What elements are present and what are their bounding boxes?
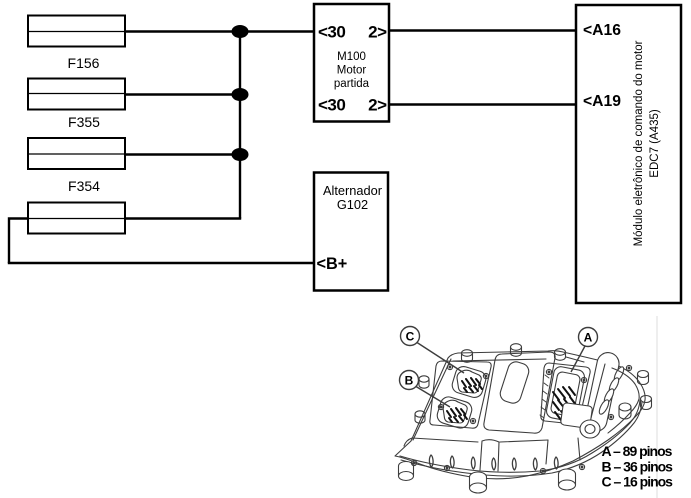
wire bus vertical [239, 32, 241, 219]
svg-text:2>: 2> [368, 23, 387, 42]
callout circle C [401, 327, 420, 346]
band teardrop 4 [597, 398, 610, 415]
leader line A [571, 346, 585, 372]
screw 3 [540, 468, 545, 473]
svg-text:M100: M100 [337, 51, 366, 63]
cover band centerline [591, 364, 605, 418]
svg-text:<30: <30 [318, 23, 345, 42]
fuse F354 [28, 138, 125, 194]
junction node 3 [232, 148, 249, 161]
connector C pins [462, 378, 482, 392]
center plate window [498, 360, 531, 405]
connector A bay [541, 363, 590, 424]
fuse F355 [28, 79, 125, 131]
callout circle B [400, 371, 419, 390]
svg-text:A: A [584, 331, 593, 345]
faint page divider line [656, 316, 658, 498]
screw 9 [438, 404, 443, 409]
front right step [546, 438, 580, 464]
right frame inner line [608, 368, 639, 433]
boss top 1 [462, 350, 473, 357]
svg-text:F354: F354 [68, 178, 100, 194]
flange lower line [401, 402, 642, 476]
fuse F156 [28, 16, 125, 72]
top edge inner line [453, 357, 584, 362]
junction node 2 [232, 88, 249, 101]
flange upper line [400, 400, 640, 472]
svg-text:F355: F355 [68, 114, 100, 130]
svg-text:Módulo eletrônico de comando d: Módulo eletrônico de comando do motor [633, 40, 645, 246]
callout circle A [579, 328, 598, 347]
svg-text:A – 89 pinos: A – 89 pinos [602, 443, 673, 459]
svg-text:B: B [405, 374, 414, 388]
connector B inner [443, 400, 467, 423]
boss corner [619, 403, 631, 411]
band teardrop 2 [607, 376, 620, 393]
center raised plate [484, 352, 555, 433]
ECU module EDC7 A435 box [576, 5, 681, 303]
connector A rim hatch [540, 375, 549, 418]
left connector bay [430, 361, 491, 428]
svg-text:partida: partida [334, 78, 370, 90]
svg-text:F156: F156 [68, 55, 100, 71]
screw 7 [447, 364, 452, 369]
svg-text:<A16: <A16 [583, 22, 621, 39]
front ridge line [404, 438, 548, 446]
left edge inner line [413, 359, 451, 440]
connector B pins [447, 408, 467, 422]
wire F355 to node [125, 93, 240, 95]
cover band [583, 351, 621, 434]
svg-text:Alternador: Alternador [323, 183, 383, 198]
svg-text:G102: G102 [337, 197, 368, 212]
junction node 1 [232, 25, 249, 38]
wire M100 pin 2 to A19 [389, 103, 575, 105]
screw 1 [411, 460, 416, 465]
wire F354 to node [125, 153, 240, 155]
boss bottom left [399, 462, 414, 477]
svg-text:<30: <30 [318, 95, 345, 114]
connector A pins [553, 387, 577, 420]
screw 11 [546, 369, 551, 374]
starter motor M100 box [314, 4, 389, 122]
bracket ring outer [580, 420, 600, 438]
svg-text:B – 36 pinos: B – 36 pinos [602, 459, 674, 475]
wire node to M100 pin 30 [240, 30, 313, 32]
wire F156 to node [125, 30, 240, 32]
wire to B+ [9, 262, 313, 263]
screw 4 [579, 464, 584, 469]
front center bump [480, 440, 499, 471]
leader line B [416, 387, 450, 408]
alternator G102 box [314, 173, 388, 291]
boss bottom right [559, 469, 576, 485]
band teardrop 1 [612, 365, 625, 382]
boss right 2 [641, 396, 652, 403]
wire fuse4 to bus [125, 217, 241, 219]
wire M100 pin 2 to A16 [389, 29, 575, 31]
connector A housing [545, 366, 585, 423]
front rail ticks [429, 455, 558, 470]
pin count legend [602, 443, 674, 490]
connector C inner [457, 370, 481, 393]
ECU illustration [395, 344, 652, 493]
ECU body outline [395, 351, 645, 479]
boss left edge 1 [419, 376, 429, 382]
boss bottom center [470, 472, 487, 488]
bracket ring inner [585, 425, 595, 434]
screw 8 [483, 373, 488, 378]
screw 6 [608, 414, 613, 419]
front bracket [561, 403, 592, 428]
svg-text:EDC7 (A435): EDC7 (A435) [649, 109, 661, 178]
svg-text:<B+: <B+ [317, 255, 348, 273]
svg-text:C – 16 pinos: C – 16 pinos [602, 474, 674, 490]
connector A inner [550, 371, 581, 417]
boss right 1 [638, 371, 649, 378]
connector C housing [450, 365, 488, 400]
svg-text:C: C [406, 330, 415, 344]
connector B housing [435, 395, 473, 430]
fuse (unlabeled, battery feed) [28, 203, 125, 234]
band teardrop 3 [602, 387, 615, 404]
wire fuse4 left down [9, 219, 28, 264]
screw 12 [581, 377, 586, 382]
boss left edge 2 [415, 411, 425, 417]
boss shoulder [555, 349, 566, 356]
boss top 2 [511, 344, 522, 351]
label Modulo eletronico EDC7 (A435) [633, 40, 661, 246]
leader line C [417, 343, 464, 374]
svg-text:2>: 2> [368, 95, 387, 114]
svg-text:<A19: <A19 [583, 93, 621, 110]
screw 2 [444, 465, 449, 470]
screw 10 [470, 418, 475, 423]
screw 5 [626, 365, 631, 370]
svg-text:Motor: Motor [337, 64, 367, 76]
